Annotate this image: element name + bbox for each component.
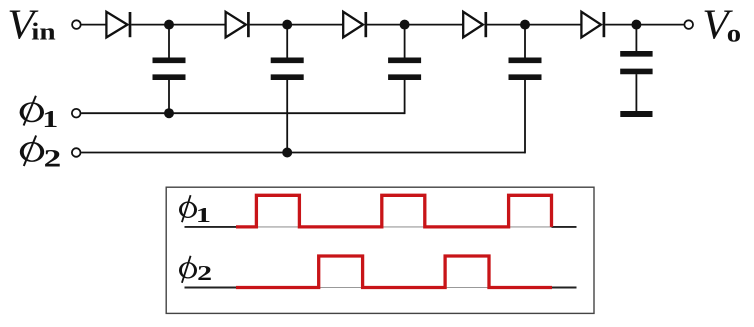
wire D4 to D5 [487,24,582,26]
phi1 axis gray baseline [185,226,577,228]
svg-text:1: 1 [196,203,211,226]
wire D1 to D2 [131,24,226,26]
phi1 axis black end segment [552,226,577,228]
capacitor C3 [388,25,421,115]
phi1 junction dot [164,108,174,118]
label phi1 [20,96,59,133]
timing label phi2 [179,256,212,285]
terminal Vo [684,20,693,29]
diode D1 [106,12,130,38]
phi2 clock line [81,152,525,154]
clock waveform phi2 [236,256,552,288]
node 2 junction dot [282,20,292,30]
diode D3 [343,12,366,38]
label phi2 [20,136,61,173]
phi1 axis black start segment [185,226,238,228]
capacitor C5 output [620,25,652,111]
timing label phi1 [179,195,211,226]
terminal Vin [72,20,81,29]
diode D2 [226,12,249,38]
capacitor C1 [153,25,186,114]
wire D3 to D4 [367,24,463,26]
ground [620,111,652,117]
capacitor C2 [271,25,304,153]
capacitor C4 [509,25,542,154]
svg-text:2: 2 [197,261,212,285]
svg-text:o: o [727,19,741,47]
clock waveform phi1 [236,195,552,227]
node 5 output junction dot [631,20,641,30]
svg-text:2: 2 [44,145,62,173]
phi2 axis gray baseline [185,287,577,289]
phi2 axis black start segment [185,287,238,289]
wire D2 to D3 [250,24,344,26]
node 3 junction dot [400,20,410,30]
timing box [166,187,594,313]
diode D4 [463,12,486,38]
label Vo [702,2,741,48]
wire D5 to Vo [605,24,684,26]
label Vin [7,3,55,49]
terminal phi1 [72,109,81,118]
wire Vin to D1 [81,24,106,26]
phi2 axis black end segment [552,287,577,289]
node 4 junction dot [520,20,530,30]
svg-text:1: 1 [42,105,58,133]
terminal phi2 [72,148,81,157]
phi1 clock line [81,112,405,114]
node 1 junction dot [164,20,174,30]
diode D5 [581,12,604,38]
phi2 junction dot [282,148,292,158]
svg-text:in: in [31,18,55,45]
